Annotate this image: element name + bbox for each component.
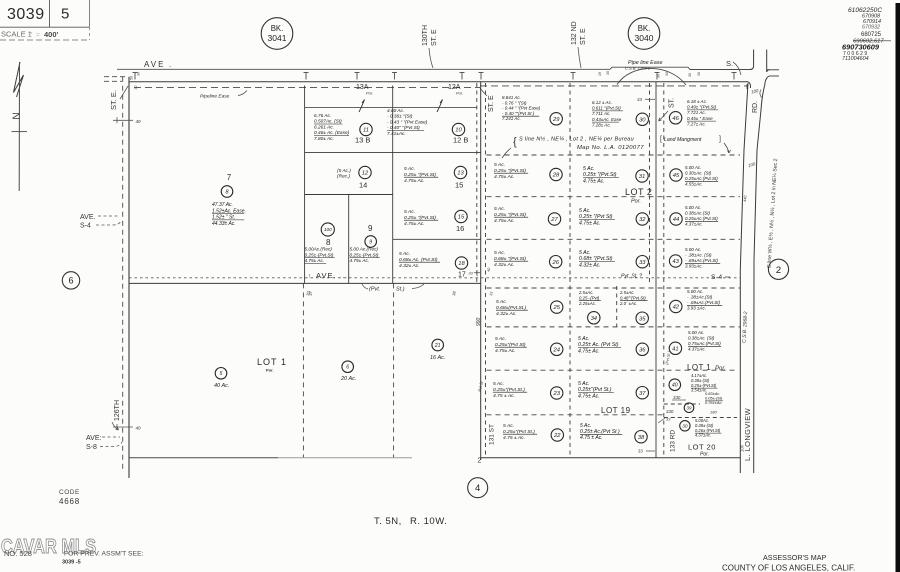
svg-text:[: [ [660, 136, 662, 143]
svg-text:33: 33 [638, 449, 643, 454]
svg-text:4.75 ± Ac.: 4.75 ± Ac. [493, 393, 515, 399]
vertical line 13B west [304, 86, 306, 284]
svg-text:5 Ac.: 5 Ac. [399, 251, 410, 257]
svg-text:R. 10W.: R. 10W. [410, 516, 447, 527]
svg-text:400': 400' [44, 30, 59, 39]
vertical line quarter section 133rd [655, 82, 657, 458]
svg-text:33: 33 [666, 417, 671, 422]
svg-text:34: 34 [591, 316, 597, 322]
svg-text:5 Ac.: 5 Ac. [496, 299, 507, 305]
parcel 34 circle [588, 312, 600, 324]
svg-text:4.75± Ac.: 4.75± Ac. [404, 178, 425, 184]
svg-text:{: { [513, 136, 517, 148]
width tick 40 lower [113, 426, 133, 428]
longview road east line [754, 84, 765, 473]
parcel 31 circle [636, 170, 648, 182]
parcel 25 circle [551, 301, 563, 313]
svg-text:4.75± Ac.: 4.75± Ac. [350, 258, 370, 263]
avenue S stub right of intersection [767, 69, 779, 71]
svg-text:0.30±Ac. (St): 0.30±Ac. (St) [685, 171, 712, 176]
svg-text:C.S.B. 1368-2: C.S.B. 1368-2 [625, 66, 651, 71]
svg-text:Pvt. St. ?: Pvt. St. ? [621, 274, 642, 280]
svg-text:26: 26 [551, 260, 559, 266]
svg-text:- 0.43 ″ ″(Pvt Ease): - 0.43 ″ ″(Pvt Ease) [387, 119, 428, 125]
svg-text:0.45± ″ Ease: 0.45± ″ Ease [687, 116, 713, 121]
svg-text:30: 30 [682, 424, 688, 430]
svg-text:180: 180 [710, 410, 717, 415]
svg-text:5 Ac.: 5 Ac. [404, 209, 415, 215]
svg-text:4.32± Ac.: 4.32± Ac. [496, 311, 517, 317]
svg-text:29: 29 [552, 117, 560, 123]
pipeline easement arc [617, 68, 686, 85]
svg-text:15: 15 [458, 215, 465, 221]
svg-text:- .38±Ac.(St): - .38±Ac.(St) [687, 295, 713, 300]
svg-text:Pipeline Ease: Pipeline Ease [200, 94, 230, 100]
svg-text:21: 21 [434, 343, 441, 349]
svg-text:6.261 Ac.: 6.261 Ac. [314, 124, 334, 130]
svg-text:4.75± Ac.: 4.75± Ac. [495, 348, 516, 354]
svg-text:3039 -5: 3039 -5 [62, 560, 81, 566]
svg-text:Por.: Por. [266, 368, 274, 373]
dashed vertical 131st west [476, 83, 478, 283]
svg-text:7.80± Ac.: 7.80± Ac. [314, 136, 334, 142]
svg-text:43: 43 [672, 259, 679, 265]
svg-text:39: 39 [687, 405, 692, 410]
svg-text:.: . [169, 60, 171, 69]
svg-text:19: 19 [598, 72, 602, 76]
parcel 35 circle [636, 312, 648, 324]
svg-text:23: 23 [552, 391, 560, 397]
svg-text:16: 16 [456, 224, 464, 233]
parcel 22 circle [551, 429, 563, 441]
svg-text:BK.: BK. [638, 24, 651, 33]
svg-text:4.75± Ac.: 4.75± Ac. [404, 221, 425, 227]
svg-text:9: 9 [369, 239, 372, 245]
svg-text:5 Ac.: 5 Ac. [579, 250, 591, 256]
svg-text:Por.: Por. [700, 452, 709, 458]
svg-text:30: 30 [137, 72, 141, 76]
svg-text:13 B: 13 B [355, 136, 370, 145]
parcel 41 circle [669, 342, 681, 354]
svg-text:22: 22 [553, 433, 561, 439]
svg-text:0.25±-(Pvt.St): 0.25±-(Pvt.St) [350, 252, 379, 257]
svg-text:8: 8 [226, 189, 229, 195]
svg-text:18: 18 [458, 261, 465, 267]
svg-text:7.721 Ac.: 7.721 Ac. [687, 110, 706, 115]
svg-text:10: 10 [455, 128, 462, 134]
svg-text:0.38±Ac. (St): 0.38±Ac. (St) [688, 336, 715, 341]
svg-text:0.611 ″(Pvt.St): 0.611 ″(Pvt.St) [592, 106, 621, 111]
svg-text:7.241 Ac.: 7.241 Ac. [502, 116, 521, 121]
svg-text:6: 6 [346, 365, 349, 371]
avenue S-4 dashed upper [129, 277, 740, 279]
svg-text:S line N½ , NE¼ , Lot 2 , NE: S line N½ , NE¼ , Lot 2 , NE¼ per Bureau [519, 136, 634, 143]
parcel 32 circle [636, 213, 648, 225]
parcel 45 circle [670, 169, 682, 181]
north-south road stub above avenue S [753, 50, 755, 67]
parcel 6 circle [342, 361, 354, 373]
svg-text:47.37 Ac.: 47.37 Ac. [212, 202, 233, 208]
parcel 23 circle [551, 387, 563, 399]
svg-text:4.75± Ac.: 4.75± Ac. [579, 220, 601, 226]
svg-text:44: 44 [673, 217, 679, 223]
svg-text:31: 31 [639, 174, 645, 180]
svg-text:30: 30 [606, 71, 610, 75]
svg-text:5 Ac.: 5 Ac. [583, 166, 595, 172]
svg-text:0.25±Ac.(Pvt.St): 0.25±Ac.(Pvt.St) [685, 216, 718, 221]
svg-text:33: 33 [637, 97, 642, 102]
svg-text:27: 27 [550, 217, 558, 223]
svg-text:0.49± ″(Pvt.St): 0.49± ″(Pvt.St) [687, 105, 717, 110]
svg-text:37: 37 [639, 391, 646, 397]
svg-text:4.75 ± Ac.: 4.75 ± Ac. [503, 435, 525, 441]
horizontal line below 14 [305, 194, 393, 196]
svg-text:28: 28 [552, 173, 560, 179]
svg-text:24: 24 [552, 347, 559, 353]
dashed vertical 131st east [485, 83, 487, 458]
vertical dashed below ave s-4 east [393, 283, 395, 457]
dashed vertical mid column [569, 83, 571, 458]
svg-text:4: 4 [475, 483, 480, 494]
svg-text:3.93±Ac.: 3.93±Ac. [685, 264, 703, 269]
svg-text:13: 13 [457, 171, 464, 177]
parcel 42 circle [670, 300, 682, 312]
svg-text:S-4: S-4 [711, 274, 723, 281]
svg-text:Por.: Por. [456, 91, 463, 96]
svg-text:46: 46 [672, 116, 679, 122]
svg-text:6.12 ± Ac.: 6.12 ± Ac. [592, 100, 612, 105]
svg-text:Por.: Por. [366, 91, 373, 96]
svg-text:7: 7 [227, 173, 232, 182]
svg-text:35: 35 [639, 316, 646, 322]
svg-text:2: 2 [776, 265, 781, 276]
parcel 16 circle 15 [455, 210, 467, 222]
svg-text:45: 45 [673, 173, 680, 179]
parcel 12B circle 10 [452, 123, 464, 135]
svg-text:2.5±Ac.: 2.5±Ac. [578, 290, 594, 295]
svg-text:40: 40 [136, 119, 142, 124]
svg-text:COUNTY OF LOS ANGELES, CAL: COUNTY OF LOS ANGELES, CALIF. [722, 564, 855, 572]
svg-text:5 Ac.: 5 Ac. [495, 336, 506, 342]
avenue S road lower line [129, 81, 749, 83]
svg-text:- .69±Ac.(Pvt.St): - .69±Ac.(Pvt.St) [685, 258, 718, 263]
west corner dashes [104, 76, 126, 78]
svg-text:- .38±Ac. (St): - .38±Ac. (St) [685, 253, 712, 258]
svg-text:100: 100 [740, 444, 745, 452]
bottom boundary line west half [129, 457, 278, 459]
svg-text:44.33± Ac.: 44.33± Ac. [212, 221, 236, 227]
svg-text:LOT 1: LOT 1 [687, 363, 711, 372]
longview road west line [740, 83, 748, 473]
svg-text:711004604: 711004604 [842, 56, 869, 62]
parcel 14 circle 12 [359, 166, 371, 178]
svg-text:5 Ac.: 5 Ac. [578, 381, 590, 387]
north arrow [14, 62, 24, 97]
svg-text:S-4: S-4 [80, 223, 91, 230]
svg-text:990: 990 [476, 317, 482, 326]
svg-text:S-8: S-8 [86, 444, 97, 451]
parcel 21 circle [432, 339, 444, 351]
svg-text:ST. E: ST. E [580, 28, 587, 45]
svg-text:4.75± Ac.: 4.75± Ac. [578, 348, 600, 354]
svg-text:4668: 4668 [59, 497, 80, 506]
svg-text:7.28± Ac.: 7.28± Ac. [592, 122, 611, 127]
svg-text:30: 30 [665, 72, 669, 76]
svg-text:4.37±Ac.: 4.37±Ac. [695, 433, 711, 438]
vertical dashed below ave s-4 west [302, 283, 304, 457]
svg-text:42: 42 [673, 305, 680, 311]
svg-text:T. 5N,: T. 5N, [374, 516, 402, 527]
svg-text:5: 5 [61, 6, 69, 23]
svg-text:131 ST: 131 ST [489, 424, 496, 445]
svg-text:0.25±Ac.(Pvt.St): 0.25±Ac.(Pvt.St) [685, 176, 718, 181]
svg-text:5 Ac.: 5 Ac. [494, 206, 505, 212]
parcel 30 circle [636, 113, 648, 125]
parcel 46 circle [669, 112, 681, 124]
svg-text:5.00 Ac.: 5.00 Ac. [685, 247, 701, 252]
svg-text:- 0.40 ″″(Pvt St ): - 0.40 ″″(Pvt St ) [502, 111, 535, 116]
svg-text:7.711 Ac.: 7.711 Ac. [592, 111, 611, 116]
svg-text:7.41±Ac.: 7.41±Ac. [387, 131, 406, 137]
svg-text:16 Ac.: 16 Ac. [430, 355, 445, 361]
svg-text:25: 25 [552, 305, 560, 311]
svg-text:St.): St.) [396, 287, 405, 293]
dashed vertical 34-35 divider [616, 286, 618, 327]
svg-text:5 Ac.: 5 Ac. [404, 166, 415, 172]
svg-text:30: 30 [697, 72, 701, 76]
svg-text:5 Ac.: 5 Ac. [579, 208, 591, 214]
svg-text:9: 9 [368, 224, 373, 233]
svg-text:0.38±Ac.(St): 0.38±Ac.(St) [685, 211, 710, 216]
svg-text:6.76 Ac.: 6.76 Ac. [314, 113, 331, 119]
svg-text:0.75±Ac.(Pvt.St): 0.75±Ac.(Pvt.St) [688, 341, 721, 346]
svg-text:=: = [36, 32, 40, 39]
section circle 6 [62, 272, 79, 289]
svg-text:4.37±Ac.: 4.37±Ac. [688, 347, 706, 352]
horizontal line below 16 [393, 238, 481, 240]
svg-text:4.32± Ac.: 4.32± Ac. [579, 262, 601, 268]
parcel 8 circle 100 [321, 223, 334, 236]
svg-text:4.75± Ac.: 4.75± Ac. [494, 174, 515, 180]
dashed row line y370 [487, 369, 738, 371]
svg-text:FOR PREV. ASSM'T SEE:: FOR PREV. ASSM'T SEE: [64, 551, 144, 558]
svg-text:100: 100 [324, 227, 332, 232]
svg-text:133 RD: 133 RD [670, 430, 677, 452]
svg-text:0.761±Ac.: 0.761±Ac. [705, 400, 723, 405]
svg-text:ST. E: ST. E [431, 29, 438, 46]
title block box lines [0, 26, 89, 28]
svg-text:330: 330 [673, 395, 681, 400]
vertical line 13B-12B divider [392, 86, 394, 284]
width tick 40 upper [113, 119, 133, 121]
svg-text:0.48″″(Pvt.St): 0.48″″(Pvt.St) [620, 295, 646, 300]
svg-text:5.00 Ac.(Rec): 5.00 Ac.(Rec) [350, 247, 379, 252]
svg-text:5 Ac.: 5 Ac. [503, 423, 514, 429]
svg-text:5 Ac.: 5 Ac. [494, 162, 505, 168]
parcel 30b circle [680, 421, 690, 431]
parcel 28 circle [550, 168, 562, 180]
dashed row line y155 [487, 154, 741, 156]
parcel 44 circle [670, 213, 682, 225]
svg-text:5.00 Ac.: 5.00 Ac. [685, 165, 701, 170]
parcel 38 circle [635, 431, 647, 443]
black bar right edge [896, 3, 900, 572]
svg-text:0.25--(Pvt): 0.25--(Pvt) [579, 295, 600, 300]
svg-text:3039: 3039 [7, 6, 45, 23]
svg-text:8.841 Ac.: 8.841 Ac. [502, 95, 521, 100]
svg-text:(Pvt.: (Pvt. [369, 287, 380, 293]
svg-text:33: 33 [489, 292, 494, 297]
bottom boundary line east half [481, 457, 741, 459]
svg-text:2.25±Ac.: 2.25±Ac. [578, 301, 596, 306]
svg-text:2.0´ ±Ac.: 2.0´ ±Ac. [619, 301, 637, 306]
svg-text:S.: S. [726, 59, 733, 68]
svg-text:Por.: Por. [715, 366, 726, 372]
dashed vertical 133rd east [663, 83, 665, 458]
svg-text:CODE: CODE [59, 489, 80, 496]
svg-text:11: 11 [363, 128, 369, 134]
svg-text:670932: 670932 [862, 24, 880, 30]
svg-text:20 Ac.: 20 Ac. [340, 376, 356, 382]
svg-text:3041: 3041 [268, 33, 287, 43]
parcel 43 circle [669, 255, 681, 267]
section tick marks on avenue [134, 73, 136, 80]
svg-text:- .69±Ac.(Pvt.St): - .69±Ac.(Pvt.St) [687, 300, 720, 305]
svg-text:40: 40 [136, 426, 142, 431]
svg-text:(Rec.): (Rec.) [337, 174, 350, 180]
svg-text:4.75± Ac.: 4.75± Ac. [305, 258, 325, 263]
slash mark on 12A line [437, 100, 443, 113]
svg-text:5 Ac.: 5 Ac. [578, 336, 590, 342]
parcel 33 circle [636, 256, 648, 268]
svg-text:680725: 680725 [861, 32, 882, 38]
svg-text:130TH: 130TH [422, 25, 429, 46]
svg-text:4.75 ± Ac.: 4.75 ± Ac. [580, 435, 603, 441]
svg-text:126TH: 126TH [114, 400, 121, 421]
svg-text:33: 33 [639, 260, 646, 266]
dashed row line y197 [487, 196, 741, 198]
avenue S road upper line [117, 67, 751, 69]
parcel 5 circle [215, 368, 227, 380]
svg-text:4.32± Ac.: 4.32± Ac. [494, 262, 515, 268]
svg-text:330: 330 [666, 409, 674, 414]
parcel 9 circle 9 [365, 236, 377, 248]
svg-text:NO. 528: NO. 528 [4, 549, 32, 558]
svg-text:30: 30 [134, 86, 138, 90]
svg-text:ST. E: ST. E [488, 95, 495, 112]
svg-text:5.00Ac.(Rec): 5.00Ac.(Rec) [305, 247, 333, 252]
dashed row line y415 [487, 414, 664, 416]
svg-text:3.93 ±Ac.: 3.93 ±Ac. [687, 306, 706, 311]
svg-text:40: 40 [487, 268, 492, 273]
svg-text:LOT 20: LOT 20 [688, 443, 716, 452]
svg-text:4.60 Ac.: 4.60 Ac. [387, 108, 404, 114]
svg-text:LOT: LOT [257, 357, 278, 367]
svg-text:15: 15 [455, 181, 463, 190]
svg-text:7.27± Ac.: 7.27± Ac. [687, 121, 706, 126]
svg-text:AVE.: AVE. [80, 214, 95, 221]
dashed row line y239 [487, 238, 741, 240]
svg-text:30: 30 [657, 74, 661, 78]
svg-text:Land Mangment: Land Mangment [664, 137, 702, 143]
svg-text:Por.: Por. [631, 199, 641, 205]
dashed row line right col y404 [664, 403, 700, 405]
parcel 13B circle 11 [360, 123, 372, 135]
svg-text:32: 32 [639, 217, 646, 223]
section circle 2 [768, 259, 788, 279]
svg-text:5 Ac.: 5 Ac. [494, 250, 505, 256]
svg-text:BK.: BK. [271, 24, 284, 33]
svg-text:1: 1 [281, 357, 286, 367]
svg-text:38: 38 [638, 435, 645, 441]
svg-text:LOT 2: LOT 2 [625, 187, 652, 197]
svg-text:6.18 ± Ac.: 6.18 ± Ac. [687, 99, 707, 104]
svg-text:5.00 Ac.: 5.00 Ac. [687, 289, 703, 294]
parcel 36 circle [636, 343, 648, 355]
dashed vertical 133rd west [649, 83, 651, 283]
dashed row line y327 [487, 326, 741, 328]
svg-text:132 ND: 132 ND [571, 21, 578, 45]
slash mark on 13A line [359, 100, 365, 113]
svg-text:4.75± Ac.: 4.75± Ac. [583, 178, 605, 184]
svg-text:N: N [12, 112, 23, 119]
svg-text:4.75± Ac.: 4.75± Ac. [494, 218, 515, 224]
svg-text:2: 2 [478, 458, 482, 465]
svg-text:0.25±-(Pvt.St): 0.25±-(Pvt.St) [305, 252, 334, 257]
parcel 26 circle [550, 256, 562, 268]
svg-text:5.00 Ac.: 5.00 Ac. [688, 330, 704, 335]
svg-text:RD.: RD. [752, 101, 759, 113]
svg-text:!: ! [309, 274, 310, 280]
parcel 15 circle 13 [454, 166, 466, 178]
svg-text:12 B: 12 B [453, 136, 468, 145]
horizontal line below 13A 12A row [305, 107, 477, 109]
svg-text:2.5±Ac.: 2.5±Ac. [619, 290, 635, 295]
parcel 27 circle [548, 213, 560, 225]
svg-text:(5 Ac.): (5 Ac.) [337, 168, 351, 174]
svg-text:Map No. L.A. 0120077: Map No. L.A. 0120077 [577, 145, 644, 151]
section circle 4 [468, 478, 488, 498]
book circle BK 3041 [261, 18, 293, 50]
pipeline easement dashed line left [134, 87, 480, 89]
svg-text:6: 6 [68, 276, 73, 286]
svg-text:40 Ac.: 40 Ac. [214, 383, 229, 389]
svg-text:4.32± Ac.: 4.32± Ac. [399, 263, 420, 269]
avenue S-4 dashed lower right [487, 287, 741, 289]
svg-text:50: 50 [130, 76, 134, 80]
dashed row line right col y417.5 [664, 417, 737, 419]
svg-text:4.37±Ac.: 4.37±Ac. [685, 222, 703, 227]
corner flare longview [748, 82, 751, 88]
svg-text:5: 5 [220, 371, 223, 377]
svg-text:- 0.44 ″ ″(Pvt Ease): - 0.44 ″ ″(Pvt Ease) [502, 106, 541, 111]
parcel 24 circle [551, 343, 563, 355]
west boundary dashed line [122, 77, 124, 470]
svg-text:30: 30 [688, 73, 692, 77]
svg-text:AVE:: AVE: [86, 435, 101, 442]
pipeline easement dashed line right [480, 85, 747, 87]
svg-text:ST.: ST. [669, 98, 676, 108]
svg-text:3040: 3040 [635, 33, 654, 43]
svg-text:ST. E.: ST. E. [109, 90, 118, 110]
parcel 29 circle [550, 113, 562, 125]
parcel 17 circle 18 [455, 257, 467, 269]
vertical line parcel 8-9 divider [348, 195, 350, 284]
horizontal line below 13B 12B [305, 152, 481, 154]
parcel 39 circle [684, 403, 694, 413]
svg-text:ASSESSOR'S MAP: ASSESSOR'S MAP [763, 553, 826, 562]
tick arrow y283 crossing [476, 270, 478, 276]
